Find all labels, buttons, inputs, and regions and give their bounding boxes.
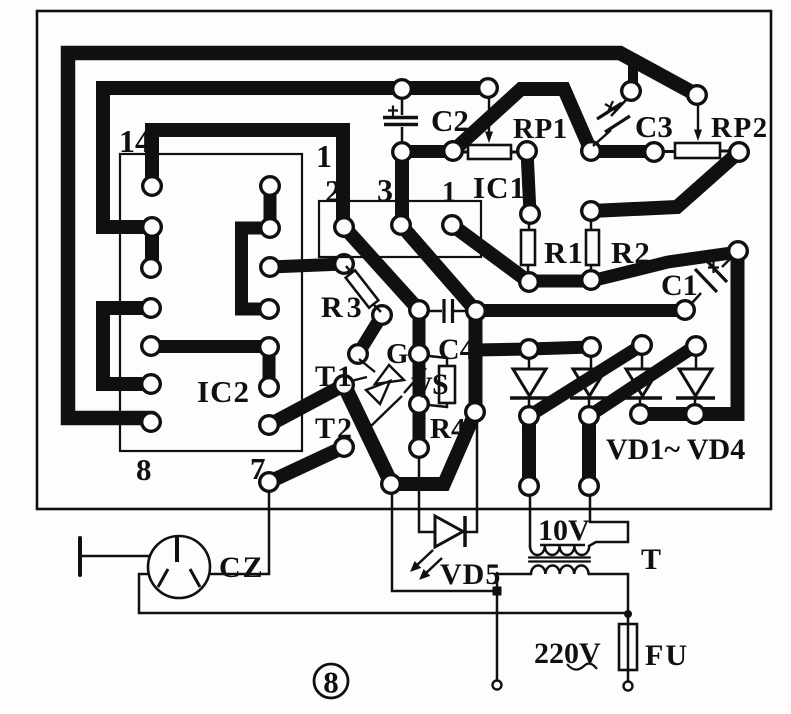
pad: IC2 pin5 <box>260 338 279 357</box>
pad: transformer secondary right <box>580 477 599 496</box>
pad: VD4 bottom <box>686 405 705 424</box>
diode VD4 <box>676 356 715 404</box>
wire: RP1 right pad down to R1 top <box>527 151 530 213</box>
wire: secondary right end over to vertical and up to pad <box>589 497 628 546</box>
wire: outer top trace from IC2 pin8 pad up-left, along top, diagonal to top-right pad <box>68 53 697 418</box>
capacitor C2 leads <box>401 100 404 141</box>
wire: bottom pad right then up to VD5 cathode pad <box>391 413 475 484</box>
svg-text:CZ: CZ <box>219 551 265 584</box>
pad: RP2 left <box>645 143 664 162</box>
capacitor C4 plates <box>444 299 453 323</box>
wire: through fuse FU to open terminal <box>627 613 630 681</box>
pad: T2 <box>335 438 354 457</box>
pad: transformer secondary left <box>520 477 539 496</box>
wire: mountain trace RP1 left pad over to pad left of RP2 <box>453 89 591 151</box>
pad: IC2 pin12 <box>142 259 161 278</box>
pad: C3 top <box>622 82 641 101</box>
junction: 220V left <box>493 587 502 596</box>
svg-text:RP1: RP1 <box>513 113 568 145</box>
pad: VD3 bottom <box>631 405 650 424</box>
wire: stub pin13 to pin12 <box>145 227 159 268</box>
wire: second trace from IC2 pin13 pad along top to pad C2-top <box>103 88 488 227</box>
pad: G gate <box>349 345 368 364</box>
pad: IC1 pin3 <box>392 216 411 235</box>
svg-text:1: 1 <box>316 138 332 174</box>
capacitor C1 plates <box>695 259 727 292</box>
figure number circled 8 <box>314 664 348 700</box>
wire: R2 bottom pad shallow diagonal to C1 top pad <box>591 252 738 281</box>
pad: C1 top <box>729 242 748 261</box>
resistor R4 leads <box>429 356 447 407</box>
resistor R1 body <box>521 230 535 265</box>
pad: R2 top <box>582 202 601 221</box>
wire: primary right end to fuse junction <box>589 574 628 613</box>
fuse FU body <box>619 624 637 670</box>
pad: C4 right <box>467 302 486 321</box>
pad: bottom node <box>382 475 401 494</box>
pad: IC2 pin13 <box>143 218 162 237</box>
wire: pad7 down to CZ right side <box>211 491 269 574</box>
pad: VD2 bottom <box>580 407 599 426</box>
capacitor C2 plates <box>383 118 418 125</box>
potentiometer RP1 leads <box>462 151 517 154</box>
svg-text:7: 7 <box>250 451 266 486</box>
transformer T primary winding <box>531 566 589 575</box>
capacitor C1 polarity plus <box>708 262 719 273</box>
pad: IC2 pin7 <box>260 416 279 435</box>
pad: VD4 top <box>687 337 706 356</box>
svg-text:14: 14 <box>119 123 151 159</box>
pad: RP1 left <box>444 142 463 161</box>
svg-text:S: S <box>432 368 449 401</box>
wire: C4 left pad column down through VS pads <box>413 310 426 448</box>
terminal bar left of CZ <box>78 538 82 575</box>
svg-text:IC1: IC1 <box>473 170 526 205</box>
wire: VD3 VD4 bottom pads right and up to C1 top pad <box>640 252 738 414</box>
pad: VD1 bottom <box>520 407 539 426</box>
pad: R2 bottom <box>582 271 601 290</box>
pad: C3 bottom / mountain end <box>582 142 601 161</box>
pad: IC2 pin1 <box>261 177 280 196</box>
pad: C4 left <box>410 301 429 320</box>
pad: IC1 pin2 <box>335 218 354 237</box>
wire: junction to transformer primary left end <box>497 573 531 576</box>
diode VD1 <box>510 358 549 406</box>
wire: 220V left junction down to open terminal <box>496 573 499 680</box>
svg-text:RP2: RP2 <box>711 112 769 144</box>
svg-text:T1: T1 <box>315 360 354 393</box>
capacitor C1 leads <box>692 257 732 303</box>
pad: R3 top <box>335 255 354 274</box>
pad: RP1 right <box>518 142 537 161</box>
svg-text:IC2: IC2 <box>197 374 250 409</box>
capacitor C4 leads <box>429 310 466 313</box>
pad: VD3 top <box>633 336 652 355</box>
wire: left terminal to CZ center <box>80 555 177 558</box>
svg-text:T: T <box>641 543 661 576</box>
socket CZ center pin <box>175 537 179 562</box>
capacitor C3 polarity plus <box>605 101 617 114</box>
capacitor C3 plates <box>597 103 630 132</box>
pad: IC2 pin10 <box>142 337 161 356</box>
pad: IC2 pin3 <box>261 258 280 277</box>
pad: IC2 pin2 <box>261 219 280 238</box>
pad: R1 bottom <box>520 273 539 292</box>
capacitor C2 polarity plus <box>388 106 398 117</box>
resistor R1 leads <box>528 223 529 272</box>
svg-text:1: 1 <box>442 177 456 208</box>
pad: T1 <box>335 376 354 395</box>
wire: stub C3 top pad to outer trace <box>628 64 638 91</box>
svg-text:G: G <box>386 338 409 370</box>
swash under 220V <box>567 664 597 670</box>
pad: R4 top <box>410 345 429 364</box>
underline 10V <box>540 544 585 546</box>
wire: VD1 bottom pad down to transformer pad <box>522 416 536 486</box>
pad: node 7 below IC2 <box>260 473 279 492</box>
pad: VD2 top <box>582 338 601 357</box>
wire: R1 bottom to R2 bottom <box>529 275 591 288</box>
pad: IC2 pin6 <box>260 378 279 397</box>
wire: pin7 diagonal to T1 pad <box>269 385 344 425</box>
svg-text:FU: FU <box>645 639 689 672</box>
IC1 outline box <box>319 201 481 257</box>
wiper arrow RP1 <box>485 97 493 143</box>
transformer T secondary winding 10V <box>530 546 589 555</box>
pad: top right corner <box>688 86 707 105</box>
svg-text:VD1~ VD4: VD1~ VD4 <box>606 433 745 466</box>
svg-text:2: 2 <box>325 173 341 209</box>
resistor R2 leads <box>590 221 593 270</box>
PCB board outline <box>37 11 771 509</box>
wire: CZ bottom-left down and long run to fuse junction <box>139 574 628 613</box>
pad: C2 bottom <box>393 143 412 162</box>
svg-text:VD5: VD5 <box>440 558 501 591</box>
svg-text:C2: C2 <box>431 103 469 138</box>
wire: stub IC2 pin1 to pin2 <box>264 186 277 228</box>
wire: VD2 bottom pad diagonal to VD4 top pad <box>589 346 695 416</box>
wire: pad7 diagonal to T2 pad <box>269 447 344 482</box>
LED VD5 <box>411 516 465 579</box>
resistor R3 body <box>346 270 379 307</box>
wire: VD2 bottom pad down to transformer pad <box>582 416 596 486</box>
wire: C2 bottom pad down to IC1 pin3 <box>395 152 409 224</box>
wire: VD1 bottom pad diagonal to VD3 top pad <box>529 345 642 416</box>
wiper arrow RP2 <box>694 103 702 141</box>
svg-text:C3: C3 <box>635 109 673 144</box>
pad: VD1 top <box>520 340 539 359</box>
wire: transformer secondary left lead up to pad <box>529 497 532 547</box>
diode VD2 <box>570 356 609 406</box>
socket CZ right prong <box>190 569 200 587</box>
wire: pad to pad under C3 <box>591 145 654 158</box>
wire: branch to VD1 VD2 top pads <box>476 347 591 350</box>
wire: long horizontal C4 right pad to C1 bottom pad <box>476 304 685 317</box>
junction: fuse top <box>624 610 632 618</box>
svg-text:8: 8 <box>323 665 339 700</box>
pad: IC2 pin11 <box>142 299 161 318</box>
wire: RP2 right pad diagonal down-left to R2 top pad <box>591 152 739 211</box>
wire: third trace pin14 pad to IC1 pin2 pad <box>152 130 343 227</box>
pad: RP2 right <box>730 143 749 162</box>
pad: VD5 anode pad <box>410 439 429 458</box>
pad: C2 top <box>393 80 412 99</box>
wire: inner bracket pin2 to pin4 <box>242 228 271 309</box>
wire: VD5 cathode lead up to pad <box>466 423 477 532</box>
pad: IC2 pin14 <box>143 177 162 196</box>
pad: top trace end <box>479 79 498 98</box>
svg-text:R3: R3 <box>321 291 366 324</box>
pad: IC1 pin1 <box>443 216 462 235</box>
pad: R3 bottom <box>373 306 392 325</box>
resistor R4 body <box>439 366 455 403</box>
wire: IC1 pin2 diagonal to C4 left pad <box>344 227 419 310</box>
wire: IC1 pin3 diagonal to C4 right pad <box>401 225 476 311</box>
resistor R2 body <box>586 230 599 265</box>
wire: VD5 anode lead from pad <box>419 459 433 532</box>
wire: T1 pad diagonal down to bottom pad <box>344 385 391 483</box>
thyristor VS symbol <box>351 359 426 426</box>
svg-text:10V: 10V <box>538 514 590 547</box>
potentiometer RP1 body <box>468 145 511 159</box>
wire: pad below T1 trace down to 220V junction <box>392 493 495 591</box>
pad: IC2 pin8 <box>142 413 161 432</box>
wire: IC1 pin1 diagonal to R1 bottom pad <box>452 225 529 282</box>
svg-text:C4: C4 <box>438 333 475 366</box>
svg-text:V: V <box>411 371 433 404</box>
potentiometer RP2 leads <box>664 150 729 154</box>
wire: pin10 to pin5 horizontal through IC2 <box>151 340 269 353</box>
wire: R3 bottom pad to G pad <box>358 315 382 354</box>
potentiometer RP2 body <box>675 143 720 158</box>
resistor R3 leads <box>346 266 381 312</box>
svg-text:R4: R4 <box>430 413 465 445</box>
pad: VD5 cathode pad <box>466 403 485 422</box>
svg-text:3: 3 <box>377 172 393 208</box>
pad: C1 bottom <box>676 301 695 320</box>
svg-text:R1: R1 <box>544 235 584 270</box>
socket CZ circle <box>148 536 210 598</box>
wire: pin5 down to pin6 <box>263 347 276 387</box>
terminal: 220V left open circle <box>493 681 502 690</box>
pad: R4 bottom <box>410 395 429 414</box>
pad: IC2 pin9 <box>142 375 161 394</box>
svg-text:8: 8 <box>136 452 152 487</box>
wire: left bracket pin11 to pin9 <box>103 308 151 384</box>
diode VD3 <box>623 355 662 404</box>
svg-text:C1: C1 <box>661 269 698 302</box>
svg-text:T2: T2 <box>315 412 354 445</box>
wire: C4 right pad down to pad above VD5 cathode <box>469 311 483 412</box>
svg-text:R2: R2 <box>611 235 651 270</box>
wire: C2 bottom pad to RP1 left pad <box>402 145 453 158</box>
transformer T core lines <box>529 558 590 562</box>
pad: R1 top <box>521 205 540 224</box>
wire: pin3 to R3 top pad <box>270 264 344 267</box>
IC2 outline box <box>120 154 302 451</box>
pad: IC2 pin4 <box>260 300 279 319</box>
terminal: fuse bottom open circle <box>624 682 633 691</box>
socket CZ left prong <box>158 569 168 587</box>
capacitor C3 leads <box>593 100 626 146</box>
